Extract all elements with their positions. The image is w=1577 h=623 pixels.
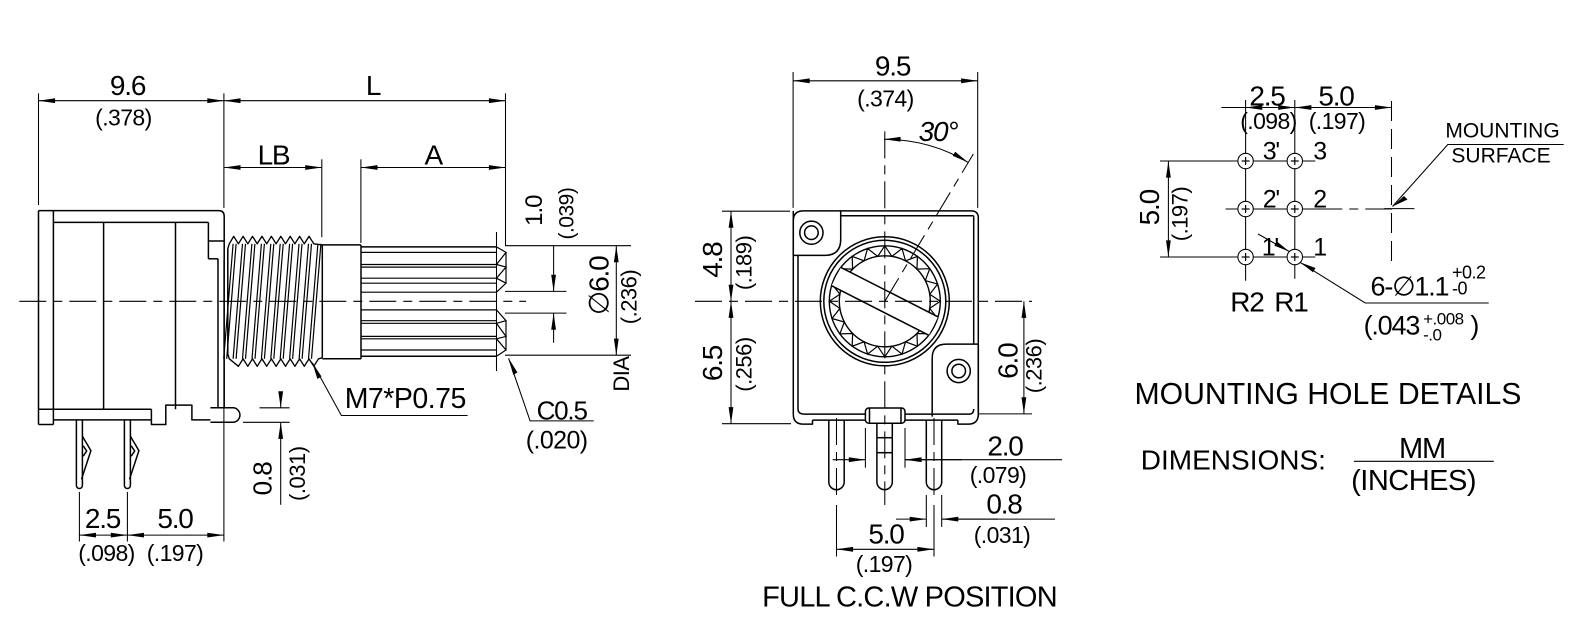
dimension 0.8 support pin (243, 392, 310, 505)
svg-text:2: 2 (1313, 186, 1326, 214)
label M7*P0.75 with leader (312, 363, 467, 416)
svg-text:2.0: 2.0 (987, 431, 1023, 462)
svg-text:-0: -0 (1452, 279, 1467, 299)
dimension A knurl length (361, 139, 506, 243)
dimension diameter 6.0 shaft (505, 246, 642, 392)
right pin centerline (933, 418, 935, 557)
svg-text:(.236): (.236) (1022, 339, 1047, 393)
svg-text:(.197): (.197) (1167, 187, 1192, 241)
svg-text:5.0: 5.0 (868, 518, 904, 549)
side view terminal pin 2 (124, 420, 138, 489)
svg-text:1: 1 (1313, 234, 1326, 262)
svg-text:∅6.0: ∅6.0 (584, 256, 615, 315)
svg-text:R1: R1 (1274, 287, 1308, 318)
label MOUNTING SURFACE with leader (1393, 120, 1564, 207)
svg-text:6.5: 6.5 (697, 345, 728, 381)
front view center terminal pin (877, 423, 892, 489)
svg-text:3: 3 (1313, 138, 1326, 166)
front view bottom flange and feet (793, 344, 978, 424)
svg-text:5.0: 5.0 (157, 503, 193, 534)
front view body outline (793, 211, 978, 414)
caption FULL C.C.W POSITION (762, 582, 1057, 614)
front view horizontal centerline (695, 300, 1032, 302)
svg-text:(.378): (.378) (95, 105, 151, 131)
svg-text:9.6: 9.6 (110, 70, 146, 101)
side view bottom profile with lug notch (39, 405, 211, 424)
svg-text:(.189): (.189) (731, 236, 756, 290)
title MOUNTING HOLE DETAILS (1135, 378, 1522, 411)
svg-text:(.374): (.374) (857, 86, 913, 112)
rotor dial with knurled ring (820, 237, 949, 366)
svg-text:6.0: 6.0 (993, 343, 1024, 379)
dimension 1.0 slot width (505, 188, 578, 343)
svg-text:6-∅1.1: 6-∅1.1 (1371, 271, 1449, 301)
svg-text:(.031): (.031) (974, 522, 1030, 548)
svg-text:): ) (1470, 310, 1478, 340)
svg-text:(.197): (.197) (856, 551, 912, 577)
svg-text:4.8: 4.8 (697, 242, 728, 278)
svg-text:1.0: 1.0 (521, 195, 548, 226)
svg-text:(.020): (.020) (526, 427, 588, 455)
svg-text:9.5: 9.5 (875, 50, 911, 81)
svg-text:MOUNTING HOLE DETAILS: MOUNTING HOLE DETAILS (1135, 378, 1522, 411)
svg-text:DIMENSIONS:: DIMENSIONS: (1141, 445, 1326, 476)
svg-text:-.0: -.0 (1423, 325, 1441, 344)
dimension 2.5 hole pitch (1221, 81, 1296, 135)
svg-text:A: A (424, 139, 443, 170)
svg-text:(INCHES): (INCHES) (1351, 465, 1476, 497)
svg-text:(.098): (.098) (78, 540, 134, 566)
shaft end chamfer serrations (497, 232, 507, 371)
svg-text:0.8: 0.8 (247, 462, 277, 496)
front view vertical centerline (884, 131, 886, 505)
svg-text:(.256): (.256) (731, 337, 756, 391)
svg-text:(.031): (.031) (285, 446, 310, 500)
mounting surface centerline (1315, 101, 1414, 266)
shaft base cylinder (322, 245, 361, 359)
side view body outline (39, 211, 225, 425)
svg-text:30°: 30° (919, 116, 959, 147)
svg-text:5.0: 5.0 (1318, 81, 1354, 112)
svg-text:(.098): (.098) (1240, 108, 1296, 134)
side view horizontal centerline (19, 300, 526, 302)
dimension 9.5 body width (793, 50, 978, 208)
svg-text:MM: MM (1399, 433, 1445, 465)
svg-text:(.197): (.197) (147, 540, 203, 566)
hole labels (1262, 138, 1327, 262)
30 degree rotor axis line (885, 154, 974, 301)
bottom-right mounting tab (932, 344, 978, 417)
svg-text:(.043: (.043 (1364, 310, 1420, 340)
svg-text:SURFACE: SURFACE (1451, 145, 1550, 168)
top-left mounting tab (793, 211, 840, 256)
svg-text:C0.5: C0.5 (537, 396, 588, 426)
label C0.5 chamfer with leader (509, 358, 594, 454)
center terminal collar (865, 408, 905, 423)
svg-text:2.5: 2.5 (1249, 81, 1285, 112)
dimension 2.0 collar width (833, 428, 1062, 488)
svg-text:(.079): (.079) (970, 462, 1026, 488)
mounting holes 6x (1238, 153, 1303, 264)
front view right terminal pin (926, 420, 941, 490)
svg-text:MOUNTING: MOUNTING (1445, 120, 1559, 143)
rotor slot bar (832, 267, 939, 335)
note 6-dia 1.1 with leader (1258, 234, 1489, 344)
svg-text:LB: LB (258, 139, 290, 170)
30 degree angle arc (884, 116, 968, 162)
row labels R2 R1 (1230, 287, 1308, 318)
top-left eyelet (800, 221, 823, 244)
side view terminal pin 1 (76, 420, 91, 489)
dimension 4.8 (697, 211, 790, 301)
dimension 6.0 (978, 301, 1046, 414)
svg-text:M7*P0.75: M7*P0.75 (345, 383, 466, 415)
svg-text:FULL C.C.W POSITION: FULL C.C.W POSITION (762, 582, 1057, 614)
svg-text:L: L (366, 70, 381, 101)
svg-text:R2: R2 (1230, 287, 1264, 318)
side view support pin (210, 408, 240, 423)
left pin centerline (836, 418, 838, 557)
svg-text:0.8: 0.8 (986, 488, 1022, 519)
bottom-right eyelet (947, 359, 970, 382)
dimension LB bushing length (224, 139, 322, 237)
svg-text:2': 2' (1263, 186, 1280, 214)
mounting hole grid lines (1160, 100, 1315, 281)
dimension 5.0 to mounting surface (1295, 81, 1392, 135)
svg-text:(.197): (.197) (1309, 108, 1365, 134)
dimension 0.8 pin diameter (896, 488, 1055, 548)
svg-text:3': 3' (1263, 138, 1280, 166)
dimension L shaft length (224, 70, 506, 246)
dimension 5.0 vertical hole span (1134, 161, 1230, 257)
dimension 9.6 body depth (39, 70, 224, 208)
svg-text:DIA: DIA (609, 356, 634, 392)
legend DIMENSIONS MM/INCHES (1141, 433, 1494, 497)
svg-text:5.0: 5.0 (1134, 189, 1165, 225)
dimension 2.5 / 5.0 terminal spacing (78, 260, 224, 566)
threaded bushing M7*P0.75 (224, 236, 323, 366)
dimension 5.0 pin spacing (837, 518, 935, 577)
svg-text:(.039): (.039) (555, 188, 578, 240)
dimension 6.5 (697, 301, 791, 423)
svg-text:2.5: 2.5 (85, 503, 121, 534)
knurled shaft with slot (361, 247, 497, 356)
svg-text:(.236): (.236) (617, 270, 642, 324)
front view left terminal pin (829, 420, 844, 490)
